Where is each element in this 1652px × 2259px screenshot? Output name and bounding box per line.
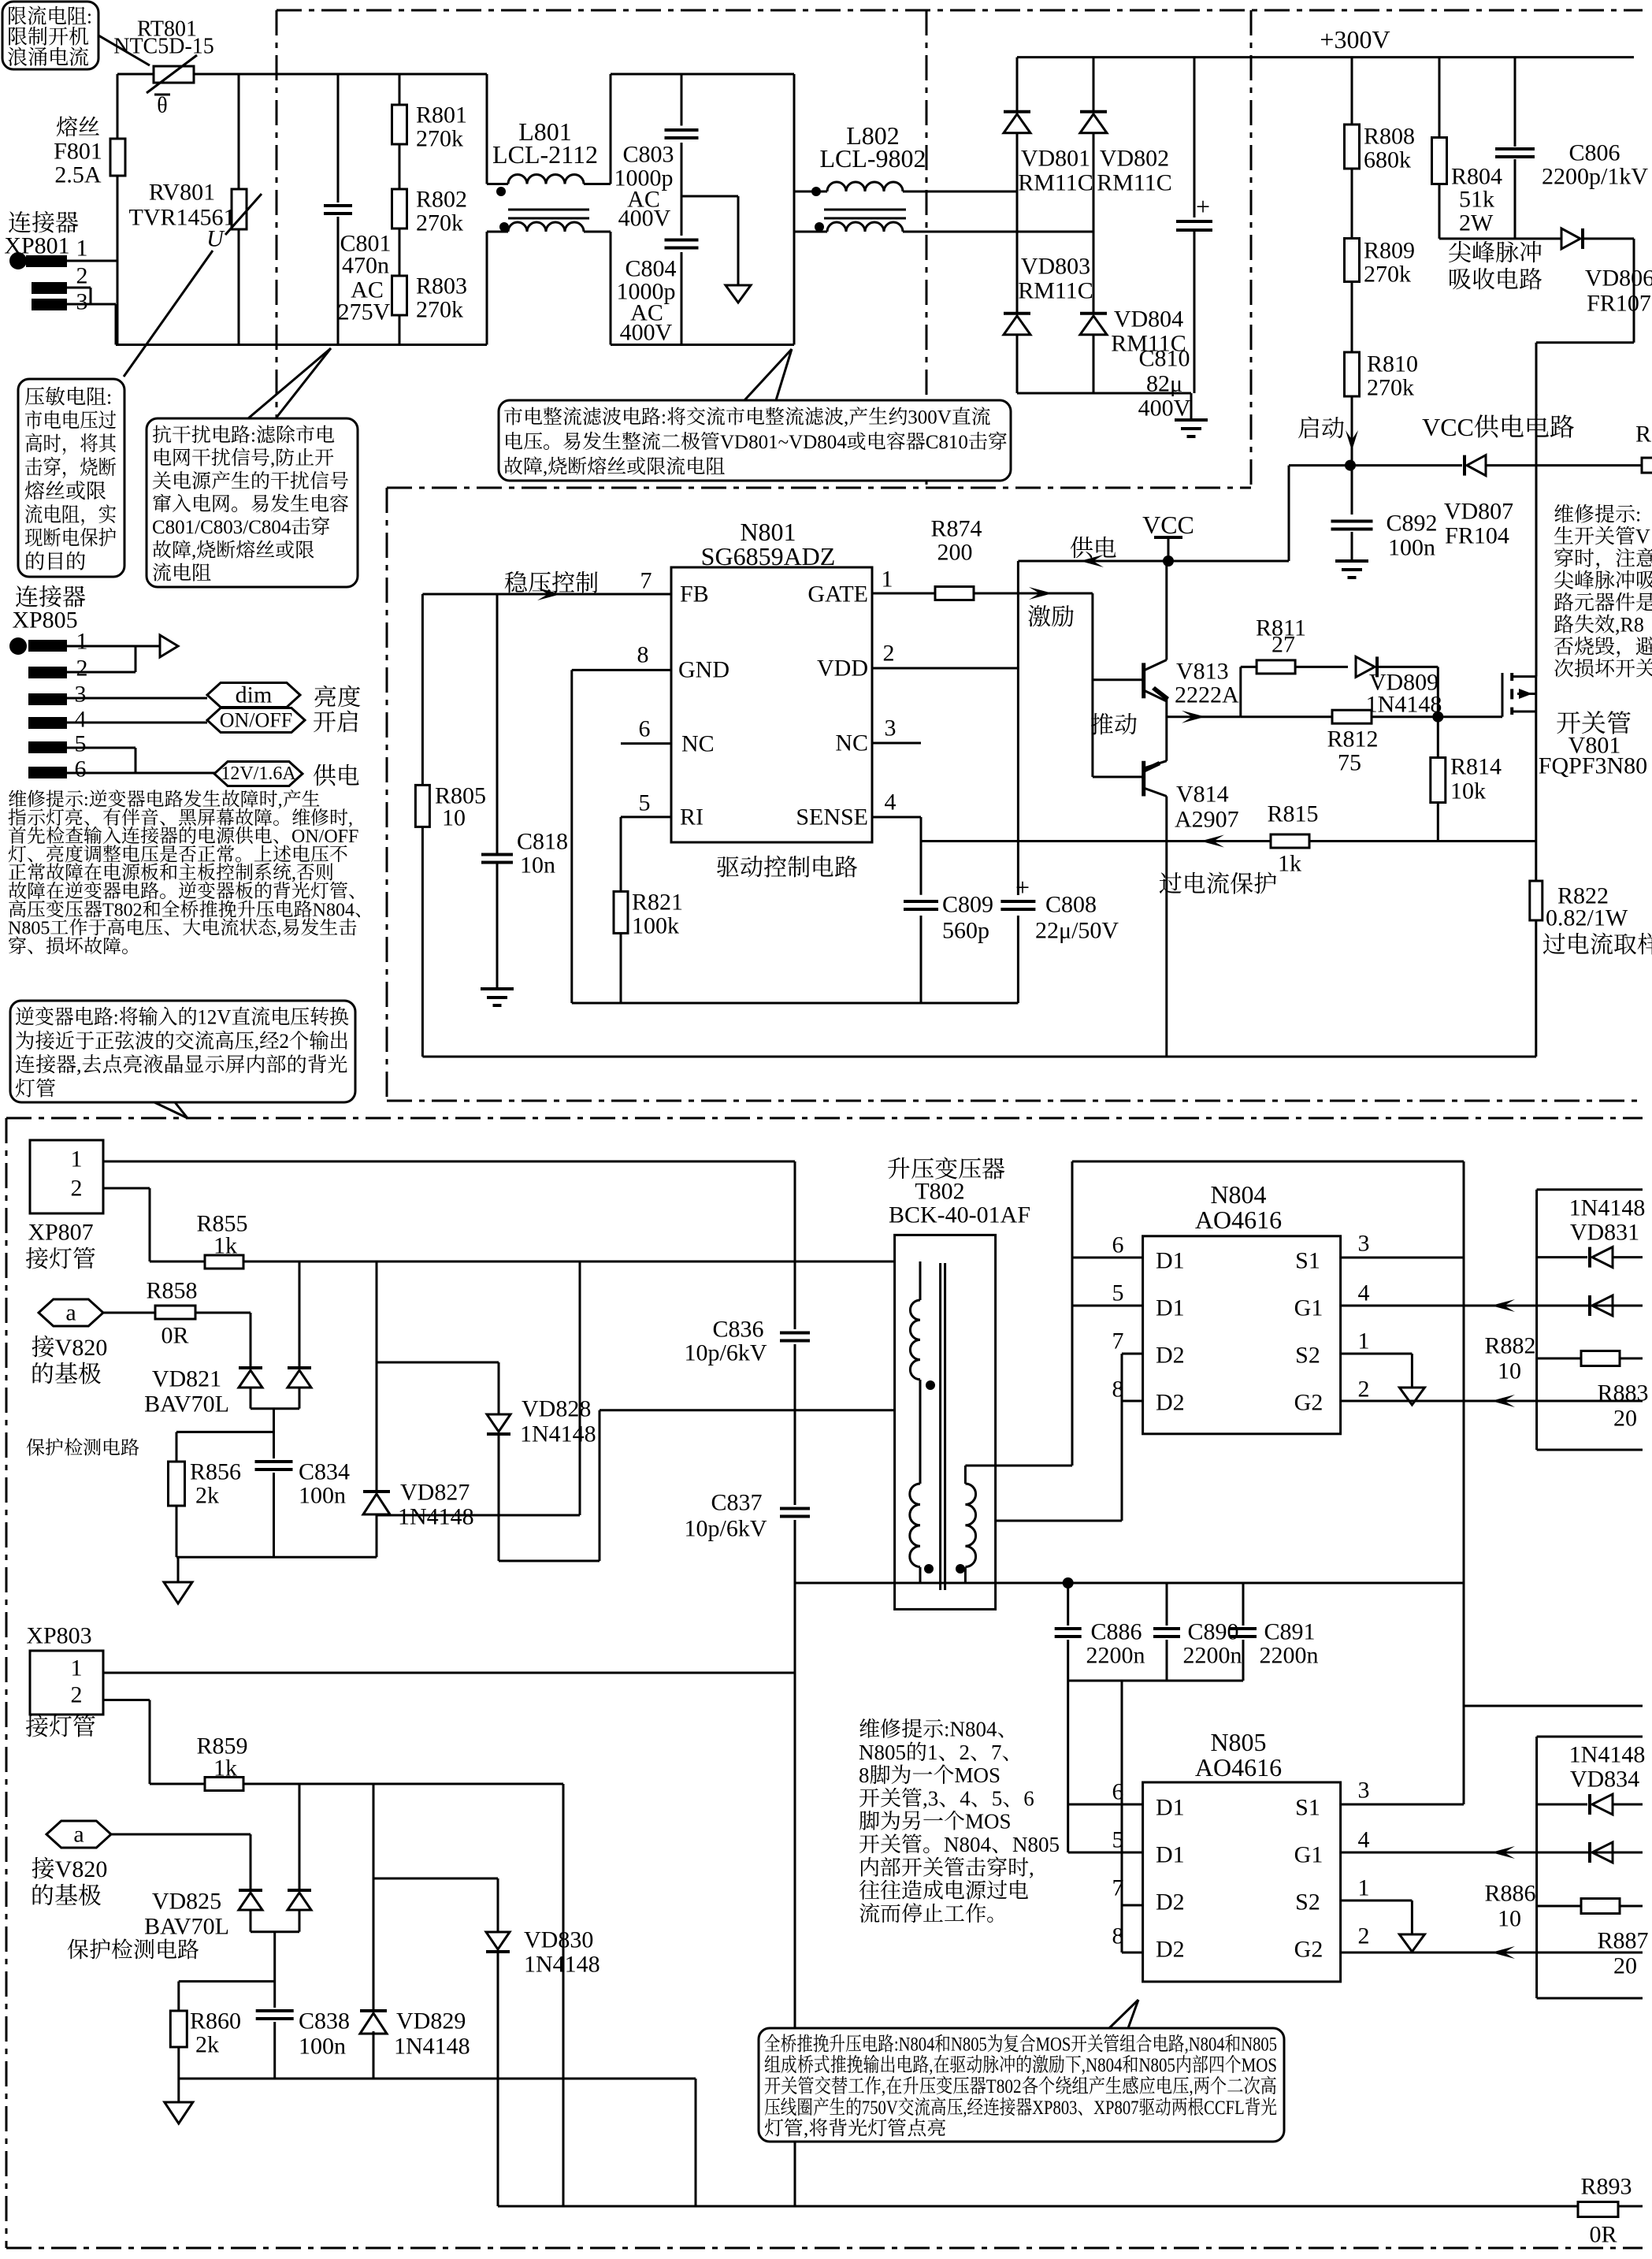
- svg-text:4: 4: [1358, 1827, 1370, 1853]
- svg-text:470n: 470n: [342, 253, 389, 279]
- svg-text:+300V: +300V: [1320, 25, 1390, 54]
- svg-text:保护检测电路: 保护检测电路: [26, 1432, 139, 1460]
- svg-text:灯管,将背光灯管点亮: 灯管,将背光灯管点亮: [764, 2113, 946, 2142]
- svg-text:8: 8: [637, 642, 649, 668]
- svg-text:FR107: FR107: [1587, 291, 1651, 317]
- svg-text:1N4148: 1N4148: [520, 1421, 596, 1447]
- svg-text:2200n: 2200n: [1260, 1643, 1319, 1669]
- svg-text:R802: R802: [416, 187, 467, 213]
- svg-text:FQPF3N80: FQPF3N80: [1539, 753, 1647, 779]
- svg-text:400V: 400V: [1138, 396, 1191, 422]
- svg-text:270k: 270k: [416, 126, 463, 152]
- svg-text:VD806: VD806: [1585, 266, 1652, 292]
- svg-text:27: 27: [1271, 632, 1295, 658]
- svg-text:C803: C803: [622, 142, 674, 168]
- svg-text:A2907: A2907: [1175, 807, 1239, 833]
- svg-text:dim: dim: [236, 682, 273, 708]
- svg-text:2: 2: [883, 641, 895, 667]
- svg-text:R856: R856: [190, 1459, 241, 1485]
- svg-text:1N4148: 1N4148: [394, 2034, 470, 2060]
- svg-text:10p/6kV: 10p/6kV: [685, 1340, 767, 1366]
- svg-text:D2: D2: [1156, 1390, 1185, 1416]
- svg-text:LCL-9802: LCL-9802: [819, 144, 926, 173]
- svg-text:N805: N805: [1210, 1728, 1266, 1756]
- svg-text:C834: C834: [299, 1459, 350, 1485]
- svg-text:10n: 10n: [520, 853, 555, 879]
- svg-text:82μ: 82μ: [1146, 371, 1182, 397]
- svg-text:680k: 680k: [1364, 147, 1411, 173]
- svg-text:2W: 2W: [1459, 210, 1494, 236]
- svg-text:GATE: GATE: [807, 581, 868, 607]
- svg-text:2k: 2k: [195, 2032, 219, 2058]
- svg-text:推动: 推动: [1090, 705, 1138, 740]
- svg-text:VD804: VD804: [1114, 307, 1183, 333]
- svg-text:RM11C: RM11C: [1097, 170, 1172, 196]
- svg-text:穿、损坏故障。: 穿、损坏故障。: [8, 931, 140, 958]
- svg-text:S1: S1: [1295, 1795, 1320, 1821]
- svg-text:+: +: [1196, 192, 1210, 221]
- svg-text:θ: θ: [157, 94, 167, 118]
- svg-text:5: 5: [1112, 1280, 1124, 1306]
- svg-text:RV801: RV801: [149, 180, 215, 206]
- svg-text:12V/1.6A: 12V/1.6A: [221, 764, 296, 784]
- svg-text:D2: D2: [1156, 1889, 1185, 1915]
- svg-text:R814: R814: [1450, 754, 1502, 780]
- svg-text:3: 3: [76, 289, 88, 315]
- svg-text:C809: C809: [942, 892, 993, 918]
- svg-text:VD827: VD827: [400, 1480, 470, 1506]
- svg-text:G2: G2: [1294, 1937, 1323, 1963]
- svg-text:2200n: 2200n: [1183, 1643, 1242, 1669]
- svg-text:2: 2: [1358, 1377, 1370, 1403]
- svg-text:1k: 1k: [1278, 851, 1301, 877]
- svg-text:VD825: VD825: [152, 1889, 221, 1915]
- svg-text:7: 7: [1112, 1328, 1124, 1354]
- svg-text:3: 3: [75, 682, 87, 708]
- svg-text:FB: FB: [680, 581, 709, 607]
- svg-text:10: 10: [1498, 1358, 1521, 1384]
- svg-text:5: 5: [75, 731, 87, 757]
- svg-text:C806: C806: [1568, 140, 1620, 166]
- svg-text:VD821: VD821: [152, 1366, 221, 1392]
- svg-text:VD834: VD834: [1570, 1767, 1639, 1793]
- svg-text:NC: NC: [835, 730, 868, 756]
- svg-text:V813: V813: [1176, 659, 1229, 685]
- svg-text:ON/OFF: ON/OFF: [220, 709, 292, 732]
- svg-text:G2: G2: [1294, 1390, 1323, 1416]
- svg-text:1: 1: [1358, 1875, 1370, 1901]
- svg-text:启动: 启动: [1297, 409, 1345, 444]
- svg-text:C836: C836: [712, 1317, 763, 1343]
- svg-text:6: 6: [1112, 1232, 1124, 1258]
- svg-text:D1: D1: [1156, 1842, 1185, 1868]
- svg-text:灯管: 灯管: [15, 1072, 56, 1102]
- svg-text:NTC5D-15: NTC5D-15: [113, 35, 214, 59]
- svg-text:100n: 100n: [299, 1483, 346, 1509]
- svg-text:T802: T802: [915, 1179, 964, 1205]
- svg-text:2200n: 2200n: [1086, 1643, 1145, 1669]
- svg-text:C837: C837: [711, 1490, 762, 1516]
- svg-text:D2: D2: [1156, 1937, 1185, 1963]
- svg-text:G1: G1: [1294, 1842, 1323, 1868]
- svg-text:G1: G1: [1294, 1295, 1323, 1321]
- svg-text:浪涌电流: 浪涌电流: [7, 42, 89, 71]
- svg-text:FR104: FR104: [1445, 523, 1509, 549]
- svg-text:a: a: [73, 1822, 84, 1848]
- svg-text:1: 1: [882, 567, 893, 593]
- svg-text:XP805: XP805: [12, 607, 77, 633]
- svg-text:过电流保护: 过电流保护: [1159, 864, 1277, 899]
- svg-text:开启: 开启: [313, 703, 360, 738]
- svg-text:0R: 0R: [1589, 2222, 1617, 2248]
- svg-text:R809: R809: [1364, 238, 1415, 264]
- svg-text:6: 6: [75, 756, 87, 782]
- svg-text:N804: N804: [1210, 1180, 1266, 1209]
- svg-text:R886: R886: [1484, 1881, 1535, 1907]
- svg-text:560p: 560p: [942, 918, 989, 944]
- svg-text:3: 3: [885, 715, 897, 741]
- svg-text:VCC供电电路: VCC供电电路: [1422, 407, 1575, 444]
- svg-text:1k: 1k: [213, 1756, 237, 1782]
- svg-text:R815: R815: [1267, 801, 1318, 827]
- svg-text:VD830: VD830: [524, 1927, 593, 1953]
- svg-text:1: 1: [76, 236, 88, 262]
- svg-text:VDD: VDD: [817, 656, 868, 682]
- svg-text:R803: R803: [416, 273, 467, 299]
- svg-text:供电: 供电: [1070, 529, 1117, 563]
- svg-text:3: 3: [1358, 1778, 1370, 1804]
- svg-text:1k: 1k: [213, 1233, 237, 1259]
- svg-text:0R: 0R: [161, 1323, 188, 1349]
- svg-text:的基极: 的基极: [31, 1354, 102, 1389]
- svg-text:1N4148: 1N4148: [1366, 692, 1442, 718]
- svg-text:C891: C891: [1264, 1619, 1315, 1645]
- svg-text:1N4148: 1N4148: [398, 1504, 474, 1530]
- svg-text:C890: C890: [1187, 1619, 1238, 1645]
- svg-text:的目的: 的目的: [24, 546, 86, 575]
- svg-text:保护检测电路: 保护检测电路: [67, 1933, 199, 1964]
- svg-text:RM11C: RM11C: [1018, 278, 1093, 304]
- svg-text:2222A: 2222A: [1175, 682, 1239, 708]
- svg-text:51k: 51k: [1459, 187, 1494, 213]
- svg-text:GND: GND: [678, 657, 729, 683]
- svg-text:C808: C808: [1045, 892, 1097, 918]
- svg-text:RI: RI: [680, 804, 703, 830]
- svg-text:400V: 400V: [618, 206, 671, 232]
- svg-text:C892: C892: [1386, 511, 1437, 537]
- svg-text:R: R: [1635, 422, 1651, 448]
- svg-text:1: 1: [71, 1655, 83, 1681]
- svg-text:400V: 400V: [620, 320, 673, 346]
- svg-text:100n: 100n: [1388, 535, 1435, 561]
- svg-text:200: 200: [937, 540, 973, 566]
- svg-text:3: 3: [1358, 1231, 1370, 1257]
- svg-text:4: 4: [1358, 1280, 1370, 1306]
- svg-text:D1: D1: [1156, 1795, 1185, 1821]
- svg-text:接灯管: 接灯管: [25, 1239, 96, 1274]
- svg-text:6: 6: [639, 716, 651, 742]
- svg-text:V814: V814: [1176, 782, 1229, 808]
- svg-text:流电阻: 流电阻: [152, 557, 211, 585]
- svg-text:连接器,去点亮液晶显示屏内部的背光: 连接器,去点亮液晶显示屏内部的背光: [15, 1049, 348, 1078]
- svg-text:270k: 270k: [416, 210, 463, 236]
- svg-text:20: 20: [1613, 1953, 1637, 1979]
- svg-text:AO4616: AO4616: [1195, 1206, 1282, 1234]
- svg-text:SENSE: SENSE: [796, 804, 868, 830]
- svg-text:D1: D1: [1156, 1248, 1185, 1274]
- svg-text:4: 4: [885, 790, 897, 816]
- svg-text:VD807: VD807: [1444, 499, 1513, 525]
- svg-text:100k: 100k: [632, 913, 679, 939]
- svg-text:R821: R821: [632, 890, 683, 916]
- svg-text:接灯管: 接灯管: [25, 1707, 96, 1742]
- svg-text:故障,烧断熔丝或限流电阻: 故障,烧断熔丝或限流电阻: [503, 451, 725, 479]
- svg-text:的基极: 的基极: [31, 1876, 102, 1911]
- svg-text:LCL-2112: LCL-2112: [492, 140, 598, 169]
- svg-text:2k: 2k: [195, 1483, 219, 1509]
- svg-text:10k: 10k: [1450, 778, 1486, 804]
- svg-text:R893: R893: [1580, 2174, 1632, 2200]
- svg-text:2: 2: [1358, 1923, 1370, 1949]
- svg-text:VD801: VD801: [1021, 146, 1090, 172]
- svg-text:NC: NC: [681, 731, 715, 757]
- svg-text:270k: 270k: [416, 297, 463, 323]
- svg-text:2.5A: 2.5A: [54, 162, 102, 188]
- svg-text:2: 2: [76, 263, 88, 289]
- svg-text:S1: S1: [1295, 1248, 1320, 1274]
- svg-text:C818: C818: [517, 829, 568, 855]
- svg-text:VD828: VD828: [522, 1396, 591, 1422]
- svg-text:1N4148: 1N4148: [1569, 1742, 1646, 1768]
- svg-text:10: 10: [442, 805, 466, 831]
- svg-text:5: 5: [639, 790, 651, 816]
- svg-text:熔丝: 熔丝: [56, 110, 100, 142]
- svg-text:VCC: VCC: [1142, 511, 1194, 539]
- svg-text:R887: R887: [1597, 1928, 1648, 1954]
- svg-text:U: U: [206, 226, 225, 252]
- svg-text:S2: S2: [1295, 1889, 1320, 1915]
- svg-text:BCK-40-01AF: BCK-40-01AF: [889, 1202, 1030, 1228]
- svg-text:R860: R860: [190, 2008, 241, 2034]
- svg-text:R858: R858: [146, 1278, 197, 1304]
- svg-text:2: 2: [71, 1682, 83, 1708]
- svg-text:XP803: XP803: [26, 1623, 91, 1649]
- svg-text:R810: R810: [1367, 351, 1418, 377]
- svg-text:R801: R801: [416, 102, 467, 128]
- svg-text:2: 2: [76, 656, 88, 682]
- svg-text:流而停止工作。: 流而停止工作。: [859, 1897, 1008, 1927]
- svg-text:4: 4: [75, 707, 87, 733]
- svg-text:a: a: [65, 1300, 76, 1326]
- svg-text:10p/6kV: 10p/6kV: [685, 1516, 767, 1542]
- svg-text:F801: F801: [54, 139, 102, 165]
- svg-text:1: 1: [71, 1146, 83, 1172]
- svg-text:SG6859ADZ: SG6859ADZ: [701, 542, 836, 570]
- svg-text:+: +: [1015, 873, 1030, 901]
- svg-text:270k: 270k: [1367, 375, 1414, 401]
- svg-text:VD829: VD829: [396, 2008, 466, 2034]
- svg-text:C886: C886: [1090, 1619, 1142, 1645]
- svg-text:R882: R882: [1484, 1333, 1535, 1359]
- svg-text:R808: R808: [1364, 124, 1415, 150]
- svg-text:吸收电路: 吸收电路: [1448, 260, 1542, 295]
- svg-text:1N4148: 1N4148: [524, 1952, 600, 1978]
- svg-text:AO4616: AO4616: [1195, 1753, 1282, 1782]
- svg-text:R883: R883: [1597, 1380, 1648, 1406]
- svg-text:S2: S2: [1295, 1343, 1320, 1369]
- svg-text:22μ/50V: 22μ/50V: [1035, 918, 1119, 944]
- svg-text:R812: R812: [1327, 726, 1378, 752]
- svg-text:100n: 100n: [299, 2034, 346, 2060]
- svg-text:1: 1: [1358, 1328, 1370, 1354]
- svg-text:8: 8: [1112, 1377, 1124, 1403]
- svg-text:20: 20: [1613, 1406, 1637, 1432]
- svg-text:C838: C838: [299, 2008, 350, 2034]
- svg-text:1: 1: [76, 629, 88, 655]
- svg-text:驱动控制电路: 驱动控制电路: [716, 848, 858, 882]
- svg-text:VD831: VD831: [1570, 1220, 1639, 1246]
- svg-text:75: 75: [1338, 750, 1361, 776]
- svg-text:RM11C: RM11C: [1111, 331, 1186, 357]
- svg-text:2200p/1kV: 2200p/1kV: [1542, 164, 1648, 190]
- svg-text:次损坏开关: 次损坏开关: [1554, 653, 1652, 682]
- svg-text:R874: R874: [930, 516, 982, 542]
- svg-text:过电流取样: 过电流取样: [1542, 925, 1652, 960]
- svg-text:VD802: VD802: [1100, 146, 1169, 172]
- svg-text:2: 2: [71, 1176, 83, 1202]
- svg-text:D1: D1: [1156, 1295, 1185, 1321]
- svg-text:270k: 270k: [1364, 262, 1411, 288]
- svg-text:RM11C: RM11C: [1018, 170, 1093, 196]
- svg-text:275V: 275V: [338, 299, 391, 325]
- svg-text:BAV70L: BAV70L: [144, 1391, 229, 1417]
- svg-text:10: 10: [1498, 1906, 1521, 1932]
- svg-text:7: 7: [640, 568, 652, 594]
- svg-text:D2: D2: [1156, 1343, 1185, 1369]
- svg-text:VD803: VD803: [1021, 254, 1090, 280]
- svg-text:激励: 激励: [1027, 597, 1075, 632]
- svg-text:1N4148: 1N4148: [1569, 1195, 1646, 1221]
